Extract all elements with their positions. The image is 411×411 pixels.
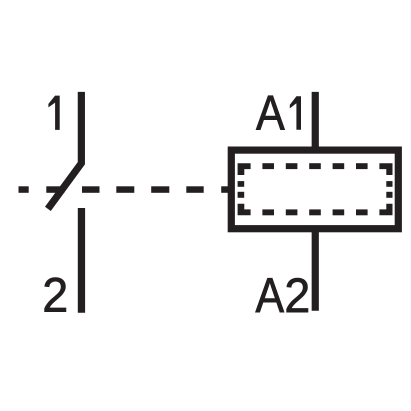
wire terminal 1 + switch blade contact bbox=[48, 92, 81, 209]
bottom row dashes bbox=[262, 209, 274, 215]
left column dashes bbox=[238, 181, 245, 187]
wire A2 bbox=[312, 229, 319, 311]
corner top-right bbox=[379, 163, 392, 175]
corner top-left bbox=[238, 163, 251, 175]
wire A1 bbox=[312, 92, 319, 150]
label A2 bbox=[255, 278, 284, 312]
coil K1 inner dashed rectangle bbox=[238, 163, 393, 215]
label 1 (terminal 1) bbox=[48, 96, 59, 130]
wire dashed mechanical link bbox=[19, 186, 229, 193]
corner bottom-left bbox=[238, 204, 251, 216]
wire terminal 2 bbox=[78, 208, 85, 313]
label 2 (terminal 2) bbox=[45, 278, 66, 312]
corner bottom-right bbox=[379, 204, 392, 216]
top row dashes bbox=[262, 163, 274, 169]
label A1 bbox=[256, 96, 285, 130]
coil K1 outer box bbox=[231, 150, 398, 229]
right column dashes bbox=[386, 181, 392, 187]
